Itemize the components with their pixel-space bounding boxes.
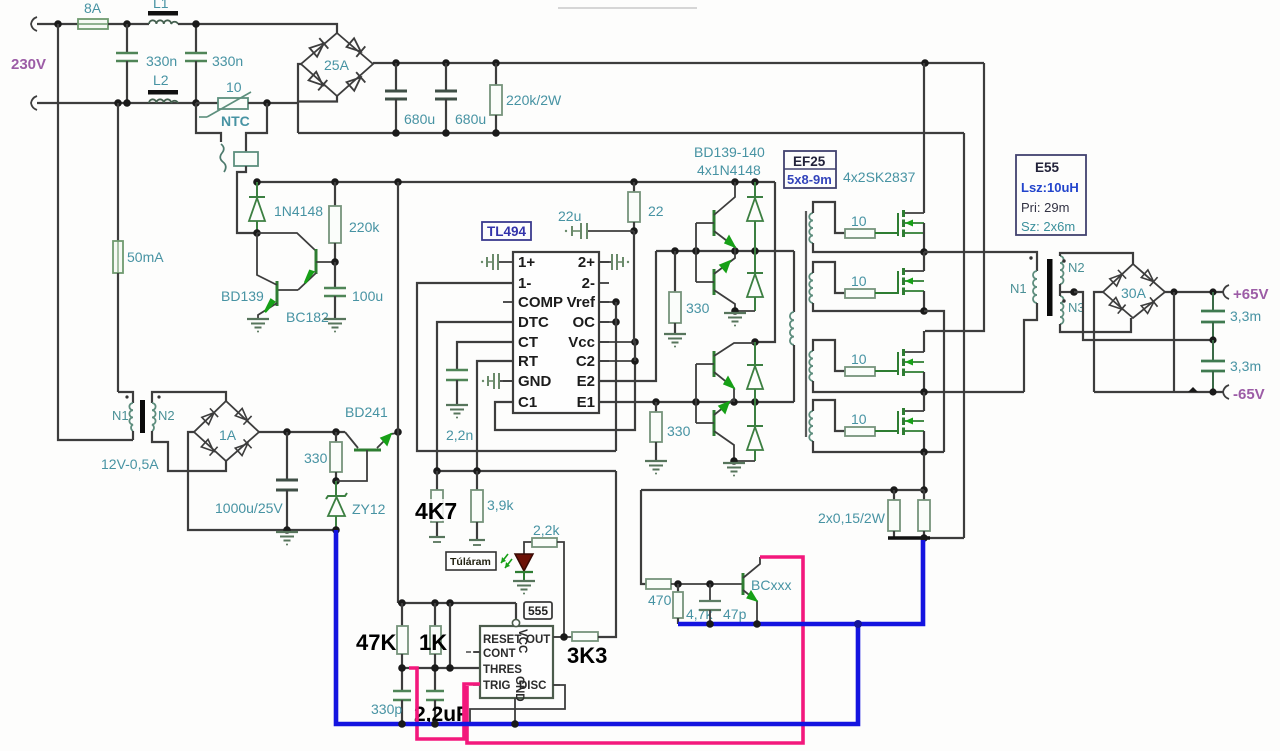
bridge B3 30A frame	[1103, 264, 1165, 318]
wire blue main sense return	[678, 540, 923, 624]
resistor 47K	[401, 603, 403, 626]
ground 2,2n	[446, 405, 468, 419]
node cap2 top	[192, 20, 200, 28]
zener ZY12	[335, 481, 337, 496]
node blue junction	[854, 620, 862, 628]
T1 polarity dot N2	[1062, 259, 1065, 262]
capacitor 2,2n	[446, 369, 468, 372]
wire S3 top to gate resistor	[813, 340, 845, 371]
mosfet Q4	[875, 430, 898, 432]
svg-text:NTC: NTC	[221, 113, 250, 129]
node A	[920, 248, 928, 256]
wire driver1 output line	[656, 250, 794, 252]
transformer T12 primary N1	[118, 392, 133, 403]
svg-text:4x2SK2837: 4x2SK2837	[843, 169, 916, 185]
svg-text:470: 470	[648, 592, 672, 608]
wire leg1 bottom jog down	[924, 311, 944, 452]
svg-text:DTC: DTC	[518, 314, 549, 331]
svg-text:50mA: 50mA	[127, 249, 164, 265]
wire driver1 bases column	[695, 223, 697, 282]
svg-text:3,9k: 3,9k	[487, 497, 514, 513]
svg-text:680u: 680u	[404, 111, 435, 127]
node neutral 50mA branch	[114, 99, 122, 107]
node 1000u top	[283, 428, 291, 436]
svg-text:Vcc: Vcc	[568, 334, 595, 351]
node NTC right / relay contact	[263, 99, 271, 107]
capacitor 330p	[393, 690, 411, 692]
output terminal -65V	[1223, 385, 1229, 399]
svg-text:GND: GND	[513, 676, 525, 702]
wire Q4 drain to node B	[923, 392, 925, 411]
diode B2 lower-right	[235, 439, 252, 456]
wire driver2 bases column	[695, 364, 697, 423]
mosfet Q3	[875, 370, 898, 372]
node THRES 1K	[431, 664, 439, 672]
node rail thres drop	[446, 599, 454, 607]
resistor 3K3	[572, 632, 598, 641]
ground 12V supply	[276, 532, 298, 546]
capacitor at GND pin	[499, 380, 513, 382]
node neutral cap	[123, 99, 131, 107]
svg-text:OC: OC	[573, 314, 596, 331]
diode B2 upper-right	[235, 408, 252, 425]
wire Vcc column	[634, 231, 635, 361]
resistor 10 gate Q1	[845, 229, 875, 238]
node rail driver collector	[731, 178, 739, 186]
wire +65V rail	[1165, 291, 1224, 293]
node 330 top	[332, 428, 340, 436]
wire NTC to bridge leg	[248, 102, 298, 104]
svg-text:330: 330	[304, 450, 328, 466]
svg-text:C1: C1	[518, 394, 537, 411]
svg-text:1A: 1A	[219, 427, 237, 443]
wire Q3 source to node B	[923, 372, 925, 392]
capacitor 3,3m lower	[1212, 340, 1214, 360]
resistor 10 gate Q2	[845, 289, 875, 298]
mosfet Q1	[875, 232, 898, 234]
bridge B2 1A frame	[194, 401, 259, 461]
svg-text:L1: L1	[153, 0, 169, 11]
node leg1 bottom	[920, 307, 928, 315]
svg-text:100u: 100u	[352, 288, 383, 304]
ground 100u	[324, 319, 346, 333]
wire -65V rail	[1094, 391, 1224, 393]
node +65 cap	[1209, 288, 1216, 295]
capacitor 2,2uF	[426, 690, 444, 692]
IC U1 TL494 body	[513, 252, 599, 413]
capacitor 3,3m upper	[1212, 292, 1214, 310]
node +rail to leg1	[921, 59, 929, 67]
wire sense bottom to -rail column	[930, 537, 964, 539]
node Vref	[612, 298, 620, 306]
label box Tularam	[446, 552, 496, 570]
node neutral L2	[192, 99, 200, 107]
node -65 cap	[1209, 388, 1216, 395]
diode B1 lower-left	[308, 71, 327, 90]
svg-text:10: 10	[851, 273, 867, 289]
node OC	[612, 318, 620, 326]
wire driver2 PNP collector to ground	[734, 460, 755, 462]
node THRES drop	[446, 664, 454, 672]
wire +310V rail	[373, 62, 984, 64]
resistor 2,2k	[532, 538, 557, 547]
node sense bottom	[920, 534, 928, 542]
TL494 pin stubs	[503, 261, 513, 263]
svg-text:330n: 330n	[146, 53, 177, 69]
svg-text:220k/2W: 220k/2W	[506, 92, 562, 108]
EF25 secondary S3 winding	[809, 351, 813, 381]
wire 3K3 to DTC line	[598, 471, 616, 637]
svg-text:330n: 330n	[212, 53, 243, 69]
T1 polarity dot N3	[1062, 299, 1065, 302]
wire Vcc stub	[599, 341, 635, 343]
resistor 10 gate Q3	[845, 367, 875, 376]
wire CT to 2,2n	[457, 342, 513, 370]
wire 470 to base	[671, 583, 743, 585]
wire node A to primary top	[924, 252, 1037, 271]
svg-text:C2: C2	[576, 353, 595, 370]
node RT 3,9k	[473, 467, 481, 475]
diode B2 lower-left	[201, 439, 218, 456]
wire RT down	[477, 361, 513, 471]
LED D5	[515, 554, 533, 571]
svg-text:RT: RT	[518, 353, 538, 370]
node ground rail cap	[283, 526, 291, 534]
diode B3 lower-right	[1141, 297, 1158, 314]
svg-text:BCxxx: BCxxx	[751, 577, 791, 593]
label box EF25	[784, 151, 836, 188]
wire 1- feedback loop	[417, 283, 616, 451]
node output mid	[1209, 336, 1216, 343]
node rail diode D1	[751, 178, 759, 186]
node rail 220k	[331, 178, 339, 186]
svg-text:10: 10	[851, 411, 867, 427]
wire S1 bottom to node A	[813, 243, 924, 252]
wire Q4 source down	[923, 431, 925, 452]
node blue 2,2uF	[431, 720, 439, 728]
ground driver1	[724, 313, 746, 327]
svg-text:THRES: THRES	[483, 664, 522, 676]
svg-text:CONT: CONT	[483, 648, 516, 660]
node -rail cap2	[442, 129, 450, 137]
svg-text:4K7: 4K7	[415, 498, 457, 524]
resistor sense Ra 0,15	[893, 490, 895, 500]
node 4,7k	[674, 580, 682, 588]
wire DTC down	[437, 322, 513, 471]
wire N3 bottom to bridge	[1060, 318, 1131, 332]
inductor L1 winding	[149, 20, 178, 24]
wire Q2 source to leg1 bottom	[923, 291, 925, 311]
capacitor 680u #2	[445, 63, 447, 91]
svg-text:N1: N1	[1010, 281, 1027, 296]
node diode anode / collectors	[253, 229, 261, 237]
wire +65 to -65 vertical	[1173, 292, 1175, 391]
svg-text:330: 330	[686, 300, 710, 316]
diode 1N4148 (relay clamp)	[256, 182, 258, 197]
node BC182 base / 220k / 100u	[331, 258, 339, 266]
svg-text:330p: 330p	[371, 701, 402, 717]
resistor 4,7k	[677, 584, 679, 592]
wire AC neutral	[37, 102, 196, 104]
capacitor Cx1 330n	[126, 24, 128, 53]
wire S2 top to gate resistor	[813, 262, 845, 293]
node -rail cap1	[392, 129, 400, 137]
diode D3 driver2	[754, 342, 756, 365]
ground LED	[513, 581, 535, 595]
wire sources tie jog	[924, 451, 944, 453]
label 4K7	[413, 499, 461, 521]
svg-text:2x0,15/2W: 2x0,15/2W	[818, 510, 886, 526]
svg-text:Túláram: Túláram	[450, 556, 491, 568]
svg-text:-65V: -65V	[1233, 386, 1265, 403]
wire auxiliary rail 15V	[257, 181, 775, 183]
svg-text:30A: 30A	[1121, 285, 1147, 301]
node ZY12 anode / blue return start	[332, 526, 340, 534]
svg-text:1K: 1K	[419, 630, 447, 655]
diode D2 driver1	[754, 251, 756, 273]
svg-text:E55: E55	[1035, 160, 1060, 175]
node driver1 ground	[731, 307, 739, 315]
wire relay coil to transistor collector node	[237, 166, 257, 233]
node bleeder top	[492, 59, 500, 67]
node bases driver1	[692, 247, 700, 255]
capacitor 47p	[709, 584, 711, 600]
wire 2,2k to OUT column	[557, 542, 564, 637]
T1 primary N1 winding	[1033, 271, 1037, 303]
wire Q3 drain to +rail drop	[923, 331, 925, 352]
svg-text:CT: CT	[518, 334, 538, 351]
resistor 470	[646, 579, 671, 589]
wire pink TRIG to BCxxx collector	[467, 557, 803, 743]
wire AC live to fuse	[37, 23, 78, 25]
svg-text:680u: 680u	[455, 111, 486, 127]
svg-text:Vref: Vref	[567, 294, 596, 311]
svg-text:2,2n: 2,2n	[446, 427, 473, 443]
node sense top left	[890, 486, 898, 494]
fuse F1 8A	[78, 19, 108, 29]
bridge B1 25A frame	[301, 33, 373, 96]
svg-text:COMP: COMP	[518, 294, 563, 311]
wire S4 bottom to leg2 source	[813, 441, 924, 452]
svg-text:10: 10	[851, 213, 867, 229]
wire N2-N3 center tap	[1059, 284, 1061, 296]
node driver2 ground	[730, 457, 738, 465]
svg-text:N2: N2	[1068, 260, 1085, 275]
capacitor 680u #1	[395, 63, 397, 91]
wire -310V rail	[298, 132, 964, 134]
input terminal N	[31, 96, 37, 110]
resistor 330 driver2	[655, 402, 657, 412]
ground 330 driver2	[645, 461, 667, 475]
node center tap	[1070, 288, 1078, 296]
diode B2 upper-left	[201, 408, 218, 425]
diode D4 driver2	[754, 402, 756, 426]
thermistor NTC 10	[196, 102, 218, 104]
svg-text:1-: 1-	[518, 275, 531, 292]
svg-text:22: 22	[648, 203, 664, 219]
diode B1 upper-right	[346, 37, 365, 56]
node rail diode	[253, 178, 261, 186]
wire S1 top to gate resistor	[813, 202, 845, 233]
wire bridge AC2 vertical	[298, 64, 302, 133]
label box TL494	[482, 222, 531, 240]
svg-text:Pri: 29m: Pri: 29m	[1021, 200, 1069, 215]
wire primary bottom to node B	[1024, 303, 1037, 392]
capacitor at 1+	[498, 261, 503, 263]
svg-text:BD241: BD241	[345, 404, 388, 420]
node blue 47p	[706, 620, 714, 628]
wire sources to sense resistors	[923, 452, 925, 490]
node C2	[631, 357, 639, 365]
ground driver2	[723, 463, 745, 477]
svg-text:2-: 2-	[582, 275, 595, 292]
wire collector node to BC182	[257, 233, 316, 251]
wire Vref to loop column	[599, 301, 616, 303]
capacitor 100u	[334, 262, 336, 288]
output terminal +65V	[1223, 285, 1229, 299]
wire -rail down to sense resistors	[963, 133, 965, 538]
transistor BD139 (relay driver)	[276, 281, 279, 306]
node blue 555 gnd	[511, 720, 519, 728]
capacitor at 2+	[599, 261, 612, 263]
node cap C1 top	[123, 20, 131, 28]
svg-text:OUT: OUT	[526, 634, 550, 646]
T1 polarity dot N1	[1029, 256, 1032, 259]
svg-text:RESET: RESET	[483, 634, 521, 646]
resistor 330 driver1	[674, 251, 676, 292]
T1 secondary N3 winding	[1060, 296, 1064, 324]
wire relay contact left	[196, 103, 221, 142]
node THRES 47K	[398, 664, 406, 672]
transistor BC182	[315, 249, 318, 274]
node sense top right	[920, 486, 928, 494]
svg-text:BD139: BD139	[221, 288, 264, 304]
svg-text:2+: 2+	[578, 254, 595, 271]
node sources tie	[920, 448, 928, 456]
faint top scan line	[558, 7, 697, 9]
EF25 primary winding	[793, 251, 795, 312]
555 pin stubs	[473, 651, 480, 653]
supply rail to 555	[398, 602, 516, 604]
svg-text:Lsz:10uH: Lsz:10uH	[1021, 180, 1079, 195]
wire live branch down to 12V transformer N1 bottom	[58, 24, 133, 440]
wire THRES line	[402, 667, 480, 669]
label box E55	[1016, 155, 1086, 235]
node rail 1K	[431, 599, 439, 607]
svg-text:GND: GND	[518, 373, 552, 390]
svg-text:12V-0,5A: 12V-0,5A	[101, 456, 159, 472]
wire Q2 drain to node A	[923, 252, 925, 271]
node blue 330p	[398, 720, 406, 728]
svg-text:TRIG: TRIG	[483, 680, 511, 692]
T1 core	[1047, 259, 1053, 316]
wire driver1 PNP collector to ground	[735, 310, 755, 312]
resistor sense Rb 0,15	[923, 490, 925, 500]
node rail BD241 feed	[394, 178, 402, 186]
wire loop column Vref/OC down	[615, 302, 617, 451]
svg-text:555: 555	[528, 604, 548, 618]
diode B3 lower-left	[1109, 297, 1126, 314]
inductor L1 core bar	[148, 11, 178, 16]
node Vcc	[631, 338, 639, 346]
svg-text:47K: 47K	[356, 630, 396, 655]
svg-text:E1: E1	[577, 394, 595, 411]
svg-text:4x1N4148: 4x1N4148	[697, 162, 761, 178]
resistor 220k/2W	[495, 63, 497, 85]
diode B3 upper-right	[1141, 269, 1158, 286]
wire driver2 output line E1 nodes	[652, 398, 660, 406]
node driver2 top	[751, 338, 759, 346]
transformer T12 secondary N2	[152, 392, 226, 403]
wire S4 top to gate resistor	[813, 400, 845, 431]
svg-text:3,3m: 3,3m	[1230, 308, 1261, 324]
transformer T12 core	[140, 400, 145, 433]
relay contact blade	[220, 144, 226, 172]
svg-text:N1: N1	[112, 408, 129, 423]
svg-text:Sz: 2x6m: Sz: 2x6m	[1021, 219, 1075, 234]
wire relay coil right	[246, 103, 267, 152]
svg-text:ZY12: ZY12	[352, 501, 386, 517]
EF25 secondary S4 winding	[809, 411, 813, 441]
node 330 driver1	[671, 247, 679, 255]
svg-text:10: 10	[851, 351, 867, 367]
T1 secondary N2 winding	[1060, 256, 1064, 284]
transistor Q driver2 NPN	[713, 351, 716, 377]
node rail 47K	[398, 599, 406, 607]
input terminal L	[31, 17, 37, 31]
wire N2 top to bridge	[1060, 253, 1133, 264]
IC U2 555 body	[480, 626, 553, 698]
node live/branch	[54, 20, 62, 28]
node blue emitter	[753, 620, 761, 628]
node +65 branch	[1170, 288, 1177, 295]
node diodes driver1	[751, 247, 759, 255]
wire C1 loop to C2	[495, 361, 635, 430]
svg-text:L2: L2	[153, 72, 169, 88]
node -65 tick	[1188, 387, 1198, 392]
svg-text:EF25: EF25	[793, 154, 826, 169]
node BD241 base	[332, 477, 340, 485]
wire blue 555 ground rail	[336, 530, 858, 724]
transistor Q driver1 NPN BD139	[713, 210, 716, 236]
resistor 330 (BD241 bias)	[335, 432, 337, 442]
transistor Q driver2 PNP	[713, 410, 716, 436]
wire fuse to L1	[108, 23, 149, 25]
wire E1 to driver2	[599, 401, 794, 403]
node 47p	[706, 580, 714, 588]
wire Q1 source to node A	[923, 223, 925, 252]
wire bridge B2 minus to ground rail	[188, 432, 336, 530]
svg-text:BD139-140: BD139-140	[694, 144, 765, 160]
svg-text:220k: 220k	[349, 219, 380, 235]
wire 555 GND pin down	[514, 698, 516, 724]
wire RESET feed	[515, 603, 517, 619]
node 22u / Vcc column	[630, 227, 638, 235]
wire DISC loop to ground rail	[470, 685, 565, 724]
svg-text:230V: 230V	[11, 56, 46, 73]
fuse F2 50mA vertical	[117, 103, 119, 241]
wire L1 to bridge top	[178, 24, 337, 33]
wire C2 stub	[599, 360, 635, 362]
wire sense line down	[641, 490, 646, 584]
relay coil box	[234, 152, 258, 166]
resistor 22 (Vcc feed)	[633, 182, 635, 192]
wire S3 bottom / node B line	[813, 381, 1024, 392]
wire +12V rail	[259, 431, 345, 433]
svg-text:1000u/25V: 1000u/25V	[215, 500, 283, 516]
svg-text:E2: E2	[577, 373, 595, 390]
inductor L2 core bar	[148, 90, 178, 95]
